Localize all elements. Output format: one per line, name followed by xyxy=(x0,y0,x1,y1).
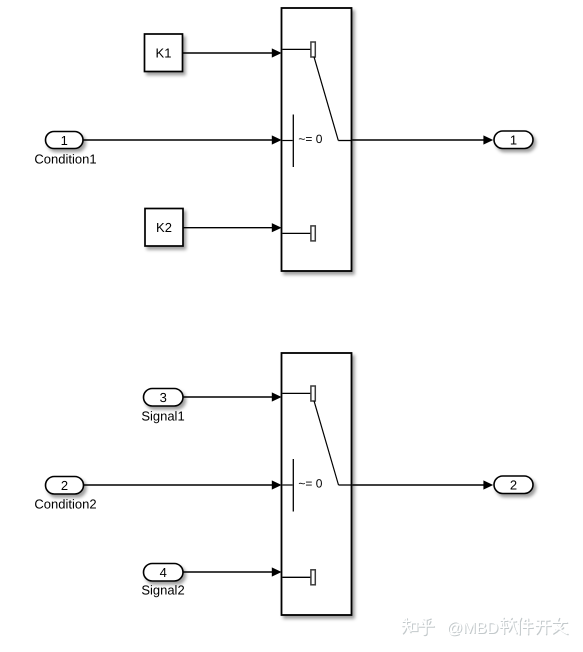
wire Signal2 to switch port3 xyxy=(184,567,282,576)
svg-text:Signal1: Signal1 xyxy=(141,408,184,423)
switch U1 top contact xyxy=(311,42,315,57)
wire Condition2 to switch port2 xyxy=(84,480,282,489)
svg-text:2: 2 xyxy=(61,478,68,493)
wm char zhi xyxy=(402,618,410,633)
svg-text:Condition1: Condition1 xyxy=(34,152,96,167)
switch U1 middle stub xyxy=(282,140,292,142)
switch U2 threshold line xyxy=(292,459,294,512)
switch block U2 xyxy=(282,353,352,615)
switch U2 bottom contact xyxy=(311,570,315,585)
inport 3 xyxy=(144,389,184,407)
switch U1 output stub xyxy=(338,140,351,142)
svg-text:K1: K1 xyxy=(156,45,172,60)
switch U1 lever xyxy=(314,57,338,141)
wire switch U2 to outport 2 xyxy=(352,480,493,489)
wm char kai xyxy=(536,620,551,634)
switch U1 top contact stub xyxy=(282,48,311,50)
switch block U1 xyxy=(282,8,352,271)
wire Signal1 to switch port1 xyxy=(184,392,282,401)
switch U2 output stub xyxy=(339,484,352,486)
svg-text:3: 3 xyxy=(160,390,167,405)
wm char ruan xyxy=(500,618,508,634)
svg-text:~= 0: ~= 0 xyxy=(298,476,322,490)
switch U2 bottom contact stub xyxy=(282,576,311,578)
switch U1 threshold line xyxy=(292,115,294,168)
wire switch U1 to outport 1 xyxy=(352,135,493,144)
svg-text:4: 4 xyxy=(160,565,167,580)
outport 1 xyxy=(494,131,533,149)
wm char hu xyxy=(419,618,434,634)
switch U2 top contact xyxy=(311,386,315,401)
switch U2 top contact stub xyxy=(282,392,311,394)
outport 2 xyxy=(494,476,533,494)
inport 2 xyxy=(46,477,84,495)
switch U1 bottom contact xyxy=(311,226,315,241)
svg-text:~= 0: ~= 0 xyxy=(298,132,322,146)
svg-text:1: 1 xyxy=(510,133,517,148)
wm char fa xyxy=(553,618,567,634)
watermark 知乎 @MBD软件开发 xyxy=(402,618,568,639)
constant block K2 xyxy=(145,209,183,247)
svg-text:Condition2: Condition2 xyxy=(34,496,96,511)
wire Condition1 to switch port2 xyxy=(84,135,282,144)
wire K1 to switch port1 xyxy=(183,48,282,57)
svg-text:K2: K2 xyxy=(156,220,172,235)
switch U1 bottom contact stub xyxy=(282,232,311,234)
constant block K1 xyxy=(145,34,183,72)
wm char jian xyxy=(518,618,533,635)
inport 4 xyxy=(144,564,184,582)
switch U2 lever xyxy=(314,401,339,485)
svg-text:Signal2: Signal2 xyxy=(141,583,184,598)
inport 1 xyxy=(46,132,84,149)
svg-text:1: 1 xyxy=(61,133,68,148)
svg-text:@MBD: @MBD xyxy=(447,620,499,637)
svg-text:2: 2 xyxy=(510,478,517,493)
switch U2 middle stub xyxy=(282,484,292,486)
wire K2 to switch port3 xyxy=(183,223,282,232)
